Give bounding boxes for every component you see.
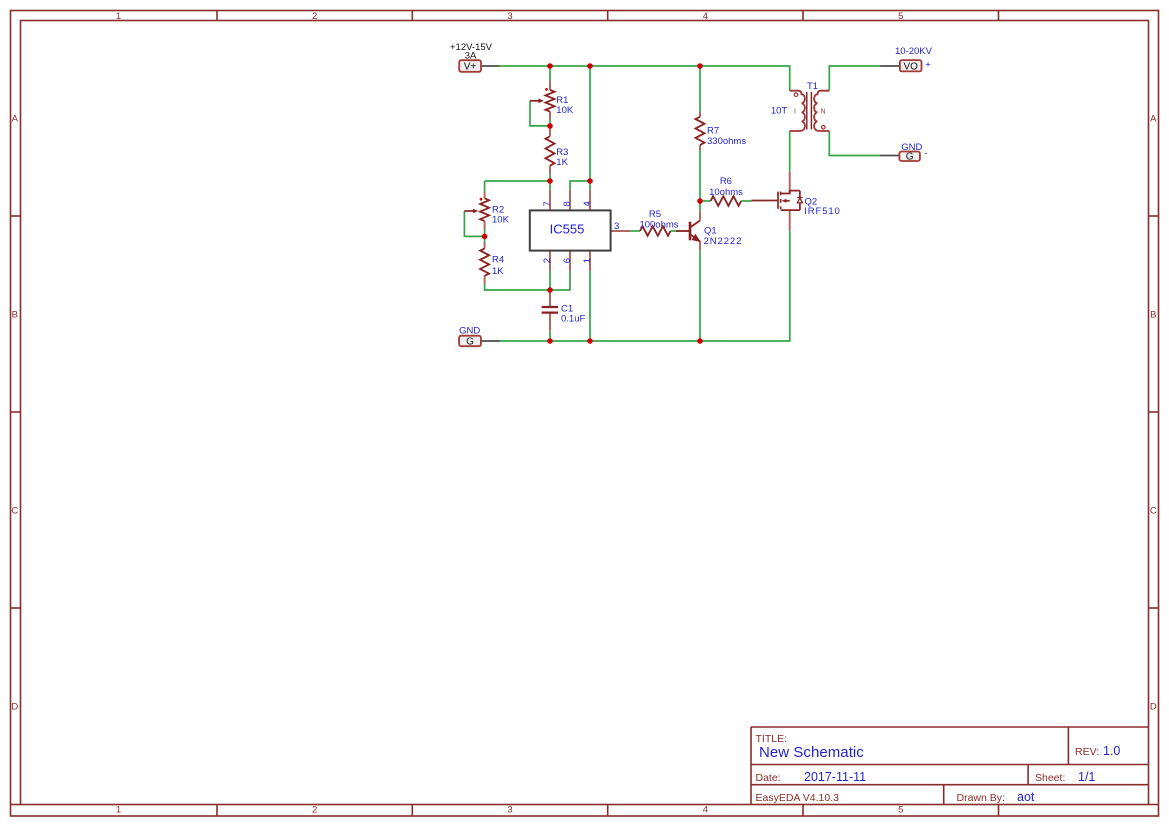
node R1/R3: [547, 123, 553, 129]
flag lead stubs: [481, 66, 900, 341]
wire R3 bottom to node: [549, 174, 551, 190]
node V+ / R1: [547, 63, 553, 69]
R4 pins: [484, 242, 486, 248]
Q1 emitter arrow: [692, 235, 700, 242]
svg-text:Drawn By:: Drawn By:: [957, 792, 1005, 804]
svg-text:GND: GND: [459, 325, 480, 336]
wire T1 primary bottom to Q2 drain: [789, 131, 791, 171]
svg-text:R7: R7: [707, 126, 719, 137]
resistor R6: [711, 196, 741, 206]
gate lead: [751, 200, 778, 202]
svg-text:D: D: [11, 702, 18, 713]
R1 pins: [549, 81, 551, 91]
svg-text:aot: aot: [1017, 790, 1035, 804]
svg-text:2: 2: [542, 258, 553, 263]
G flag stub: [880, 155, 899, 157]
svg-text:Date:: Date:: [756, 772, 781, 784]
svg-text:G: G: [906, 152, 914, 163]
svg-text:5: 5: [898, 11, 903, 22]
T1 phase dot secondary: [822, 126, 826, 130]
resistor R4: [480, 248, 489, 275]
svg-text:1.0: 1.0: [1103, 744, 1120, 758]
Q2 body arrow head: [782, 199, 787, 203]
pin stubs (light red): [485, 81, 790, 331]
svg-text:1K: 1K: [492, 266, 504, 277]
svg-text:B: B: [12, 310, 18, 321]
wire col550 top: [549, 66, 551, 81]
svg-text:-: -: [924, 148, 927, 159]
svg-text:IC555: IC555: [550, 222, 585, 237]
net flag V+: [450, 42, 493, 73]
svg-text:10T: 10T: [771, 106, 788, 117]
svg-text:1: 1: [116, 805, 121, 816]
svg-text:1: 1: [116, 11, 121, 22]
svg-text:I: I: [794, 109, 796, 116]
svg-text:1: 1: [582, 258, 593, 263]
svg-text:+: +: [925, 60, 931, 71]
gate bar: [777, 192, 779, 209]
wire R2-R4: [484, 230, 486, 243]
wire pin2 down: [549, 271, 551, 292]
transistor Q1 2N2222: [676, 221, 700, 242]
svg-text:N: N: [821, 109, 826, 116]
node R3/R2/pin7: [547, 178, 553, 184]
wire T1 secondary top to VO: [829, 66, 880, 91]
body arrow line: [785, 200, 790, 202]
svg-text:10K: 10K: [556, 105, 574, 116]
node GND/pin1: [587, 338, 593, 344]
svg-text:V+: V+: [464, 62, 477, 73]
wire R6 to gate: [741, 200, 751, 202]
IC555 pin 1 stub: [589, 251, 591, 272]
VO flag stub: [880, 65, 900, 67]
wire Q1 collector up: [699, 201, 701, 211]
svg-text:4: 4: [582, 201, 593, 206]
R2 wiper arrow: [464, 210, 473, 212]
wire R5 to Q1 base: [671, 230, 677, 232]
resistor R5: [640, 226, 670, 236]
wire T1 secondary bottom to GND: [829, 131, 880, 156]
svg-text:2N2222: 2N2222: [704, 236, 743, 247]
wire R2 rheostat loop: [464, 211, 483, 236]
net flag GND left: [459, 325, 481, 347]
R1 star mark: [545, 88, 548, 91]
IC555 pin 6 stub: [569, 251, 571, 272]
svg-text:EasyEDA V4.10.3: EasyEDA V4.10.3: [756, 792, 840, 804]
transistor Q2 IRF510 (NMOS): [751, 191, 800, 211]
svg-text:1/1: 1/1: [1078, 770, 1095, 784]
wire pin1 down: [589, 271, 591, 341]
svg-text:1K: 1K: [556, 157, 568, 168]
node V+ / col590: [587, 63, 593, 69]
wire V+ top rail: [464, 66, 880, 341]
node V+ / R7: [697, 63, 703, 69]
node R7/R6/Q1 collector: [697, 198, 703, 204]
svg-text:C: C: [11, 506, 18, 517]
svg-text:6: 6: [562, 258, 573, 263]
svg-text:Sheet:: Sheet:: [1035, 772, 1065, 784]
body diode line: [799, 191, 801, 198]
Q2 drain pin: [789, 171, 791, 193]
transformer T1: [790, 91, 830, 131]
R7 pins: [699, 112, 701, 117]
svg-text:T1: T1: [807, 81, 818, 92]
svg-text:REV:: REV:: [1075, 746, 1099, 758]
wire R7 top: [699, 66, 701, 112]
wire R2 top: [484, 181, 486, 192]
R2 star mark: [480, 198, 483, 201]
svg-text:R5: R5: [649, 209, 661, 220]
wire node201 to R6: [700, 200, 711, 202]
svg-text:8: 8: [562, 201, 573, 206]
svg-text:2: 2: [312, 805, 317, 816]
primary winding: [790, 91, 805, 131]
T1 phase dot primary: [794, 93, 798, 97]
net flag VO: [895, 46, 933, 73]
wire pin6 down: [550, 271, 570, 290]
IC555 pin 8 stub: [569, 190, 571, 211]
wire node181 horizontal: [485, 180, 550, 182]
junction dots: [482, 63, 703, 344]
svg-text:G: G: [466, 337, 474, 348]
GND flag stub: [481, 340, 500, 342]
svg-text:10-20KV: 10-20KV: [895, 46, 933, 57]
resistor R1 (rheostat): [546, 90, 555, 112]
svg-text:330ohms: 330ohms: [707, 136, 746, 147]
net flag GND right: [899, 142, 927, 163]
svg-text:A: A: [12, 114, 19, 125]
wire R7 bottom: [699, 151, 701, 202]
svg-text:A: A: [1150, 114, 1157, 125]
wire R1 bottom gap: [549, 120, 551, 127]
svg-text:5: 5: [898, 805, 903, 816]
wire col590: [589, 66, 591, 190]
source link: [781, 209, 800, 211]
IC555 pin 3 stub: [611, 230, 630, 232]
resistor R7: [696, 117, 705, 145]
IC555 pin 7 stub: [549, 190, 551, 211]
R1 wiper arrow: [530, 100, 539, 102]
V+ flag stub: [481, 65, 500, 67]
IC555 pin 2 stub: [549, 251, 551, 272]
node R2 wiper/R4: [482, 234, 488, 240]
R2 pins: [484, 192, 486, 199]
wire Q1 emitter down: [699, 250, 701, 341]
node pin2/pin6/C1: [547, 287, 553, 293]
node GND/C1: [547, 338, 553, 344]
svg-text:B: B: [1150, 310, 1156, 321]
resistor R3: [546, 136, 555, 165]
IC U1 IC555 timer body: [530, 210, 611, 250]
svg-text:4: 4: [703, 805, 708, 816]
svg-text:0.1uF: 0.1uF: [561, 314, 585, 325]
wire R4 bottom to node290: [485, 284, 550, 291]
wire pin8 branch: [570, 181, 590, 190]
svg-text:VO: VO: [903, 62, 918, 73]
svg-text:7: 7: [542, 201, 553, 206]
C1 pins: [549, 292, 551, 307]
svg-text:New Schematic: New Schematic: [759, 744, 864, 761]
wire pin3 to R5: [630, 230, 640, 232]
svg-text:3: 3: [507, 805, 512, 816]
channel segments: [780, 192, 782, 196]
svg-text:2: 2: [312, 11, 317, 22]
svg-text:R4: R4: [492, 255, 504, 266]
component labels: [492, 81, 841, 325]
svg-text:D: D: [1150, 702, 1157, 713]
wire R1 rheostat loop: [530, 101, 548, 126]
node col590/pin8: [587, 178, 593, 184]
Q2 body diode mark: [797, 198, 802, 203]
svg-text:10ohms: 10ohms: [709, 187, 743, 198]
IC555 pin 4 stub: [589, 190, 591, 211]
svg-text:IRF510: IRF510: [804, 206, 841, 217]
node GND/Q1 emitter: [697, 338, 703, 344]
svg-text:2017-11-11: 2017-11-11: [804, 770, 866, 784]
svg-text:3: 3: [507, 11, 512, 22]
svg-text:C: C: [1150, 506, 1157, 517]
svg-text:100ohms: 100ohms: [639, 220, 678, 231]
secondary winding: [814, 91, 829, 131]
svg-text:R6: R6: [720, 176, 732, 187]
wire GND bottom rail: [500, 231, 790, 341]
title block: [751, 727, 1149, 805]
capacitor C1: [542, 307, 558, 313]
resistor R2 (rheostat): [480, 198, 489, 221]
svg-text:4: 4: [703, 11, 708, 22]
Q2 source pin: [789, 210, 791, 231]
wire C1 bottom: [549, 331, 551, 341]
svg-text:3: 3: [614, 221, 619, 232]
svg-text:10K: 10K: [492, 214, 510, 225]
drain link: [781, 191, 800, 194]
T1 core: [807, 92, 812, 130]
R3 pins: [549, 126, 551, 136]
